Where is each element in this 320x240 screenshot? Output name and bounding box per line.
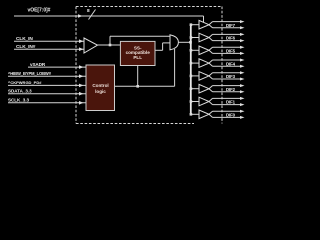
svg-text:vOE[7:0]#: vOE[7:0]#: [28, 8, 51, 14]
wire select control to mux: [115, 49, 175, 86]
svg-text:CLK_IN: CLK_IN: [16, 36, 33, 42]
bus width slash: [89, 10, 96, 20]
svg-text:DIF6: DIF6: [226, 36, 236, 41]
junction mux out on distribution line: [189, 41, 192, 44]
output buffer DIF4: [190, 59, 209, 68]
wire HIBW_BYPM_LOBW#: [8, 75, 86, 77]
svg-text:SCLK_3.3: SCLK_3.3: [8, 98, 30, 103]
arrowhead SCLK: [79, 101, 84, 105]
wire SCLK_3.3: [8, 102, 86, 104]
input receiver U1: [84, 38, 98, 53]
arrowhead OE: [78, 14, 83, 18]
wire CLK_IN#: [14, 48, 84, 50]
wire CKPWRGD_PD#: [8, 84, 86, 86]
wire bypass to mux: [110, 35, 170, 37]
svg-text:DIF7: DIF7: [226, 23, 236, 28]
wire SDATA_3.3: [8, 93, 86, 95]
arrowhead CKPWRGD: [79, 84, 84, 88]
wire mux output: [178, 41, 190, 43]
svg-text:^HIBW_BYPM_LOBW#: ^HIBW_BYPM_LOBW#: [8, 71, 52, 76]
output buffer DIF3: [190, 72, 209, 81]
output buffer DIF5: [190, 46, 209, 55]
wire DIF3 pair: [209, 71, 245, 80]
svg-text:DIF2: DIF2: [226, 87, 236, 92]
output buffer DIF0: [190, 110, 209, 119]
chip boundary dashed box: [76, 7, 222, 124]
svg-text:SDATA_3.3: SDATA_3.3: [8, 88, 32, 93]
arrowhead SDATA: [79, 92, 84, 96]
svg-text:logic: logic: [95, 89, 106, 94]
wire DIF2 pair: [209, 84, 245, 93]
svg-text:DIF3: DIF3: [226, 74, 236, 79]
mux M1: [170, 35, 178, 50]
svg-text:vSADR: vSADR: [30, 62, 46, 67]
wire CLK_IN: [14, 40, 84, 42]
wire DIF7 pair: [209, 20, 245, 29]
svg-text:DIF1: DIF1: [226, 100, 236, 105]
wire DIF6 pair: [209, 33, 245, 42]
svg-text:CLK_IN#: CLK_IN#: [16, 44, 36, 50]
output buffer DIF1: [190, 97, 209, 106]
junction node A: [109, 44, 112, 47]
arrowhead CLK_IN: [79, 39, 84, 43]
wire PLL output to mux: [155, 43, 170, 50]
svg-text:Control: Control: [92, 83, 108, 88]
wire DIF0 pair: [209, 110, 245, 119]
arrowhead CLK_IN#: [79, 47, 84, 51]
junction control line: [136, 85, 139, 88]
wire receiver output: [98, 44, 121, 46]
PLL block U2: [120, 41, 155, 65]
svg-text:DIF0: DIF0: [226, 113, 236, 118]
wire SADR: [28, 66, 86, 68]
wire bypass riser: [109, 36, 111, 45]
distribution line: [190, 25, 192, 115]
svg-text:^CKPWRGD_PD#: ^CKPWRGD_PD#: [8, 80, 42, 85]
wire DIF5 pair: [209, 46, 245, 55]
output buffer DIF2: [190, 84, 209, 93]
wire control to PLL: [137, 66, 139, 87]
output buffer DIF7: [190, 20, 209, 29]
arrowhead HIBW: [79, 74, 84, 78]
wire DIF1 pair: [209, 97, 245, 106]
output buffer DIF6: [190, 33, 209, 42]
svg-text:PLL: PLL: [133, 55, 142, 60]
svg-text:DIF5: DIF5: [226, 49, 236, 54]
arrowhead SADR: [79, 65, 84, 69]
svg-text:DIF4: DIF4: [226, 61, 236, 66]
svg-text:8: 8: [87, 8, 90, 14]
wire OE bus: [14, 16, 204, 24]
control logic block U3: [86, 65, 115, 111]
wire DIF4 pair: [209, 59, 245, 68]
